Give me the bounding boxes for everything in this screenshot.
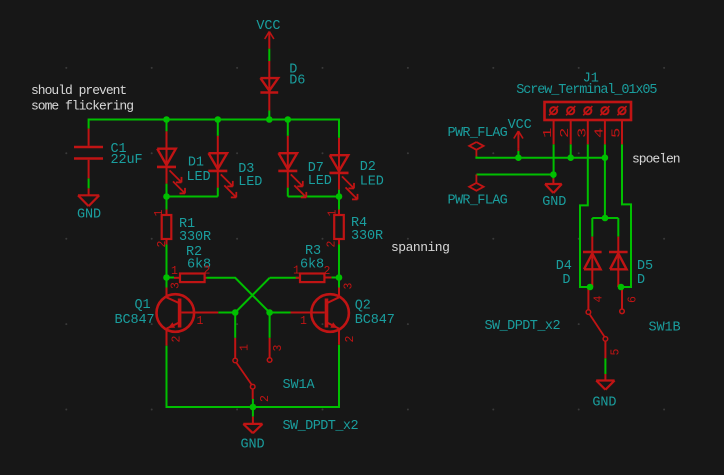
svg-text:some flickering: some flickering — [31, 99, 133, 114]
svg-text:3: 3 — [577, 128, 590, 138]
svg-text:D6: D6 — [289, 74, 305, 89]
svg-text:1: 1 — [300, 315, 307, 328]
svg-text:GND: GND — [592, 396, 616, 411]
svg-text:GND: GND — [241, 437, 265, 452]
svg-text:4: 4 — [593, 296, 606, 303]
svg-text:2: 2 — [156, 241, 169, 248]
svg-text:5: 5 — [610, 349, 623, 356]
svg-text:spanning: spanning — [391, 240, 449, 255]
svg-text:1: 1 — [197, 315, 204, 328]
svg-text:4: 4 — [594, 127, 607, 138]
svg-text:6k8: 6k8 — [300, 257, 324, 272]
svg-text:3: 3 — [170, 282, 183, 289]
svg-text:SW1A: SW1A — [283, 378, 316, 393]
svg-text:2: 2 — [324, 265, 331, 278]
svg-text:2: 2 — [259, 395, 272, 402]
svg-text:1: 1 — [327, 210, 340, 217]
svg-text:1: 1 — [542, 127, 555, 138]
svg-text:5: 5 — [611, 128, 624, 138]
svg-text:PWR_FLAG: PWR_FLAG — [448, 194, 508, 209]
svg-text:22uF: 22uF — [111, 153, 143, 168]
svg-text:3: 3 — [272, 345, 285, 352]
svg-text:VCC: VCC — [508, 118, 532, 133]
svg-text:SW_DPDT_x2: SW_DPDT_x2 — [485, 319, 561, 334]
svg-text:6: 6 — [627, 296, 640, 303]
svg-text:D4: D4 — [556, 259, 572, 274]
svg-text:2: 2 — [560, 128, 573, 138]
svg-text:Q2: Q2 — [355, 299, 371, 314]
svg-text:LED: LED — [360, 175, 384, 190]
svg-text:Q1: Q1 — [135, 298, 151, 313]
svg-text:BC847: BC847 — [115, 313, 155, 328]
svg-text:2: 2 — [326, 241, 339, 248]
svg-text:D5: D5 — [637, 259, 653, 274]
svg-text:1: 1 — [239, 344, 252, 351]
svg-text:GND: GND — [77, 208, 101, 223]
svg-text:D: D — [562, 273, 570, 288]
svg-text:3: 3 — [343, 283, 356, 290]
svg-text:LED: LED — [187, 170, 211, 185]
svg-text:LED: LED — [238, 175, 262, 190]
svg-text:2: 2 — [171, 336, 184, 343]
svg-text:PWR_FLAG: PWR_FLAG — [448, 126, 508, 141]
svg-text:GND: GND — [542, 195, 566, 210]
svg-text:330R: 330R — [351, 229, 383, 244]
svg-text:SW_DPDT_x2: SW_DPDT_x2 — [283, 419, 359, 434]
svg-text:Screw_Terminal_01x05: Screw_Terminal_01x05 — [516, 83, 657, 98]
svg-text:D: D — [637, 273, 645, 288]
svg-text:VCC: VCC — [256, 19, 280, 34]
svg-text:LED: LED — [308, 174, 332, 189]
svg-text:BC847: BC847 — [355, 313, 395, 328]
svg-text:should prevent: should prevent — [31, 83, 126, 98]
svg-text:D1: D1 — [188, 156, 204, 171]
svg-text:2: 2 — [344, 336, 357, 343]
svg-text:D2: D2 — [360, 160, 376, 175]
svg-text:1: 1 — [171, 265, 178, 278]
svg-text:spoelen: spoelen — [632, 151, 680, 166]
svg-text:1: 1 — [293, 265, 300, 278]
svg-text:SW1B: SW1B — [649, 321, 681, 336]
svg-text:330R: 330R — [179, 230, 211, 245]
svg-text:1: 1 — [153, 210, 166, 217]
svg-text:2: 2 — [204, 265, 211, 278]
